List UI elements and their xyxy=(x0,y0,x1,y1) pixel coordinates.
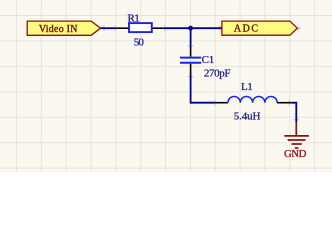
svg-text:R1: R1 xyxy=(128,13,140,25)
designator L1 xyxy=(241,81,253,93)
svg-text:L1: L1 xyxy=(241,81,253,93)
designator C1 xyxy=(202,54,215,66)
svg-text:ADC: ADC xyxy=(234,24,259,35)
wire junction to C1 xyxy=(190,28,192,46)
wire R1 to junction xyxy=(165,27,191,29)
value 50 xyxy=(134,36,145,48)
resistor R1 xyxy=(115,23,165,32)
capacitor C1 xyxy=(180,46,201,77)
svg-text:GND: GND xyxy=(284,148,307,160)
wire junction to ADC xyxy=(191,27,222,29)
wire L1 to ground xyxy=(292,103,297,123)
ground GND power port xyxy=(284,122,309,148)
port ADC xyxy=(222,21,297,35)
value 5.4uH xyxy=(234,111,261,123)
port Video IN xyxy=(27,21,100,35)
svg-text:Video IN: Video IN xyxy=(39,24,78,35)
svg-text:270pF: 270pF xyxy=(204,68,231,80)
inductor L1 xyxy=(215,96,292,102)
svg-text:5.4uH: 5.4uH xyxy=(234,111,261,123)
pin connection markers xyxy=(101,25,301,122)
wire C1 to L1 xyxy=(191,77,215,103)
wire Video IN to R1 xyxy=(101,27,116,29)
label GND xyxy=(284,148,307,160)
svg-text:50: 50 xyxy=(134,36,145,48)
junction node xyxy=(188,26,193,31)
svg-text:C1: C1 xyxy=(202,54,215,66)
designator R1 xyxy=(128,13,140,25)
value 270pF xyxy=(204,68,231,80)
